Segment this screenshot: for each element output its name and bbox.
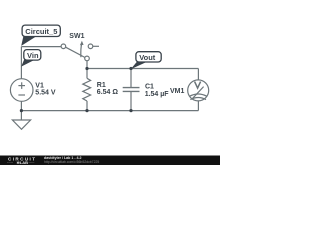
capacitor C1 bbox=[123, 88, 140, 92]
svg-text:C1: C1 bbox=[145, 83, 154, 90]
wire C1 top stub bbox=[130, 69, 132, 88]
wire switch pivot down to node A bbox=[86, 61, 88, 69]
resistor R1 bbox=[83, 78, 91, 101]
svg-text:-----: ----- bbox=[7, 161, 14, 165]
switch SW1 bbox=[61, 41, 93, 61]
node flag Vout bbox=[131, 52, 162, 70]
svg-text:http://circuitlab.com/c/56b52d: http://circuitlab.com/c/56b52dcb7225 bbox=[44, 160, 99, 164]
svg-text:5.54 V: 5.54 V bbox=[35, 90, 56, 97]
wire switch right throw stub bbox=[93, 45, 99, 47]
ground bbox=[12, 120, 30, 129]
svg-text:6.54 Ω: 6.54 Ω bbox=[97, 89, 119, 96]
wire ground stub bbox=[20, 111, 22, 120]
svg-text:SW1: SW1 bbox=[69, 33, 84, 40]
svg-text:V1: V1 bbox=[35, 82, 44, 89]
wire VM1 top stub bbox=[197, 69, 199, 81]
junction at ground node bbox=[20, 109, 23, 112]
svg-text:≌LAB: ≌LAB bbox=[17, 160, 29, 165]
VM1 V symbol bbox=[195, 82, 201, 89]
voltage source V1 bbox=[10, 79, 33, 102]
junction C1 bottom bbox=[129, 109, 132, 112]
wire R1 top stub bbox=[86, 69, 88, 79]
watermark logo CIRCUITLAB bbox=[7, 156, 36, 165]
svg-text:-----: ----- bbox=[29, 161, 36, 165]
svg-text:VM1: VM1 bbox=[170, 88, 185, 95]
wire left vertical from top corner to V1 top bbox=[20, 47, 22, 79]
svg-text:1.54 µF: 1.54 µF bbox=[145, 91, 170, 98]
svg-text:Circuit_5: Circuit_5 bbox=[25, 27, 57, 36]
svg-text:Vout: Vout bbox=[139, 53, 156, 62]
junction node B (C1 top / Vout) bbox=[129, 67, 132, 70]
svg-text:Vin: Vin bbox=[27, 51, 39, 60]
wire VM1 bottom stub bbox=[197, 101, 199, 111]
wire bottom bus bbox=[21, 110, 198, 112]
voltmeter VM1 bbox=[188, 80, 209, 101]
node flag Vin bbox=[21, 50, 41, 67]
watermark bar bbox=[0, 156, 220, 166]
wire top horizontal to switch left terminal bbox=[21, 46, 61, 48]
node flag Circuit_5 bbox=[21, 25, 60, 46]
junction R1 bottom bbox=[85, 109, 88, 112]
junction node A (switch/R1/bus) bbox=[85, 67, 88, 70]
wire V1 bottom to ground junction bbox=[20, 102, 22, 111]
wire C1 bottom stub bbox=[130, 92, 132, 111]
wire middle bus node A to VM1 corner bbox=[87, 68, 198, 70]
wire R1 bottom stub bbox=[86, 101, 88, 111]
svg-text:R1: R1 bbox=[97, 82, 106, 89]
